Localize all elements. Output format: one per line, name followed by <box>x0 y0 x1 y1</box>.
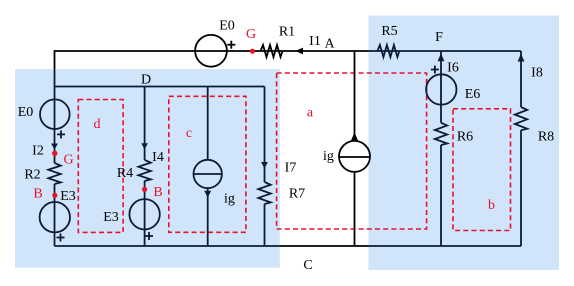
wire top horizontal right (blue zone) <box>369 50 522 52</box>
voltage source E6 <box>426 74 456 104</box>
resistor R1 <box>261 45 283 57</box>
resistor R8 <box>515 107 527 130</box>
resistor R7 <box>258 182 270 204</box>
dashed loop c <box>169 96 246 232</box>
current source ig middle <box>339 141 370 172</box>
node dot B branch2 <box>142 187 147 192</box>
plus sign E0 top <box>227 44 235 46</box>
resistor R6 <box>435 123 447 145</box>
arrow ig middle (up) <box>351 132 358 140</box>
voltage source E0 top <box>195 35 227 67</box>
svg-text:I6: I6 <box>447 61 459 76</box>
wire branch R7 vertical upper <box>264 87 266 183</box>
svg-text:R4: R4 <box>117 166 133 181</box>
background region right (highlight) <box>369 16 560 271</box>
node dot G top <box>250 49 255 54</box>
wire right branch vertical lower <box>520 130 522 246</box>
current source ig branch3 <box>194 160 222 188</box>
wire branch R4/E3 vertical upper <box>144 87 146 161</box>
plus sign E3 left <box>57 237 65 239</box>
wire bottom horizontal right <box>369 245 522 247</box>
wire bottom horizontal middle (white zone) <box>279 245 368 247</box>
svg-text:R2: R2 <box>24 168 40 183</box>
svg-text:I1: I1 <box>309 34 321 49</box>
wire middle ig branch vertical <box>354 51 356 246</box>
wire E6/R6 branch vertical lower <box>440 145 442 246</box>
wire bottom horizontal left (node C) <box>55 245 280 247</box>
arrow I7 (down) <box>261 162 268 169</box>
plus sign E6 <box>431 69 439 71</box>
dashed loop b <box>453 109 511 231</box>
voltage source E3 branch2 <box>129 199 159 229</box>
svg-text:b: b <box>488 198 495 213</box>
arrow I8 (up) <box>518 54 525 62</box>
svg-text:E0: E0 <box>219 19 235 34</box>
wire right branch vertical upper (I8) <box>520 51 522 107</box>
svg-text:A: A <box>324 37 335 52</box>
svg-text:B: B <box>153 185 162 200</box>
svg-text:R1: R1 <box>279 25 295 40</box>
svg-text:C: C <box>303 258 312 273</box>
wire E6/R6 branch vertical upper <box>440 51 442 123</box>
plus sign E3 branch2 <box>145 235 153 237</box>
svg-text:E3: E3 <box>60 189 76 204</box>
svg-text:I7: I7 <box>285 161 297 176</box>
wire branch R7 vertical lower <box>264 204 266 246</box>
wire top horizontal (white zone) <box>55 50 369 52</box>
current source ig branch3 bar <box>194 173 222 175</box>
arrow ig branch3 (down) <box>204 191 211 198</box>
svg-text:a: a <box>307 106 314 121</box>
svg-text:c: c <box>186 126 192 141</box>
arrow I4 (down) <box>141 143 148 149</box>
svg-text:ig: ig <box>224 192 235 207</box>
current source ig middle bar <box>339 156 370 158</box>
svg-text:E0: E0 <box>18 105 34 120</box>
arrow I6 (up) <box>438 53 445 61</box>
svg-text:R6: R6 <box>457 130 473 145</box>
svg-text:G: G <box>63 153 73 168</box>
voltage source E0 left <box>40 99 70 129</box>
svg-text:d: d <box>94 117 101 132</box>
svg-text:R7: R7 <box>289 187 305 202</box>
svg-text:ig: ig <box>323 149 334 164</box>
wire left branch vertical lower <box>54 184 56 246</box>
svg-text:G: G <box>246 27 256 42</box>
node dot B left <box>52 193 57 198</box>
wire node D horizontal <box>55 86 265 88</box>
svg-text:I8: I8 <box>531 66 543 81</box>
resistor R4 <box>138 160 150 181</box>
background region left (highlight) <box>15 69 280 268</box>
arrow I1 (left) <box>295 48 303 55</box>
svg-text:R5: R5 <box>381 24 397 39</box>
svg-text:E3: E3 <box>103 210 119 225</box>
wire branch ig vertical <box>207 87 209 247</box>
svg-text:D: D <box>141 73 151 88</box>
svg-text:I4: I4 <box>152 150 164 165</box>
wire left branch top stub <box>54 50 56 69</box>
svg-text:B: B <box>33 187 42 202</box>
resistor R5 <box>377 45 399 57</box>
dashed loop d <box>78 100 123 233</box>
svg-text:F: F <box>435 30 443 45</box>
svg-text:I2: I2 <box>32 144 44 159</box>
voltage source E3 left <box>40 202 70 232</box>
svg-text:R8: R8 <box>538 129 554 144</box>
wire left branch vertical upper <box>54 69 56 163</box>
wire branch R4/E3 vertical lower <box>144 181 146 246</box>
svg-text:E6: E6 <box>465 87 481 102</box>
plus sign E0 left <box>57 133 65 135</box>
arrow I2 (down) <box>51 144 58 150</box>
node dot G left <box>52 151 57 156</box>
resistor R2 <box>48 163 60 184</box>
dashed loop a <box>277 73 427 229</box>
